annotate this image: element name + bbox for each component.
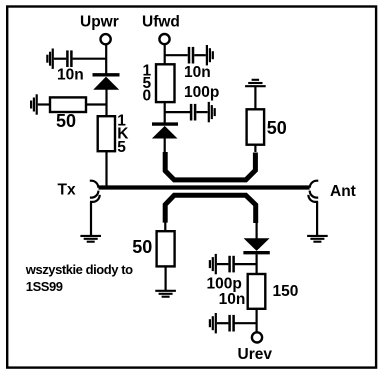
- capacitor C2 10n plates: [189, 47, 193, 64]
- ground right of C2: [207, 45, 213, 65]
- terminal Urev: [252, 332, 262, 342]
- upper coupled line: [165, 152, 255, 180]
- capacitor C5 10n plates: [230, 315, 234, 332]
- ground below R5: [155, 291, 176, 297]
- diode D2 cathode bar: [152, 122, 178, 125]
- svg-text:Ufwd: Ufwd: [142, 14, 180, 31]
- svg-text:100p: 100p: [184, 84, 219, 101]
- resistor R1 50: [50, 97, 86, 112]
- capacitor C1 10n wire: [73, 58, 107, 60]
- wire R6 to Urev: [256, 309, 258, 332]
- wire C1 to ground: [54, 58, 66, 60]
- wire R4 to coupled line: [254, 145, 256, 152]
- capacitor C4 100p wire: [234, 263, 257, 265]
- capacitor C2 10n wire: [165, 54, 188, 56]
- svg-text:5: 5: [117, 139, 126, 156]
- svg-text:1SS99: 1SS99: [26, 279, 63, 294]
- resistor R4 50: [247, 109, 265, 144]
- ground Tx: [80, 236, 101, 242]
- wire D2 to coupled line: [164, 138, 166, 154]
- wire R2 to main line: [105, 151, 107, 187]
- diode D1 triangle: [93, 77, 119, 90]
- svg-text:Tx: Tx: [58, 181, 76, 198]
- ground Ant: [307, 236, 328, 242]
- wire D1 to R2: [105, 90, 107, 117]
- wire R5 to ground: [165, 266, 167, 290]
- wire R1 to node: [86, 103, 107, 105]
- connector Ant arcs: [308, 181, 318, 202]
- lower coupled line: [165, 195, 256, 223]
- terminal Upwr: [101, 34, 111, 44]
- svg-text:150: 150: [273, 283, 299, 300]
- svg-text:50: 50: [56, 111, 76, 131]
- svg-text:Urev: Urev: [238, 346, 273, 363]
- svg-text:10n: 10n: [57, 67, 84, 84]
- resistor R5 50: [157, 231, 175, 266]
- svg-text:10n: 10n: [184, 64, 211, 81]
- resistor R2 1K5: [98, 116, 115, 151]
- diode D2 triangle: [152, 126, 178, 139]
- capacitor C5 10n wire: [234, 322, 257, 324]
- svg-text:50: 50: [267, 118, 287, 138]
- svg-text:50: 50: [132, 237, 152, 257]
- ground left of R1: [31, 94, 37, 114]
- svg-text:Ant: Ant: [330, 183, 356, 200]
- wire C5 to ground: [217, 322, 229, 324]
- terminal Ufwd: [159, 34, 169, 44]
- svg-text:Upwr: Upwr: [80, 14, 119, 31]
- resistor R6 150: [248, 274, 266, 309]
- resistor R3 150: [156, 64, 175, 102]
- wire C2 to ground: [194, 54, 206, 56]
- main transmission line Tx-Ant: [99, 185, 310, 189]
- wire R3 to D2: [164, 102, 166, 123]
- wire R1 to ground: [38, 103, 50, 105]
- svg-text:10n: 10n: [219, 291, 246, 308]
- ground left of C5: [210, 313, 216, 333]
- wire C4 to ground: [217, 263, 229, 265]
- wire C3 to ground: [196, 111, 207, 113]
- capacitor C1 10n plates: [67, 50, 71, 67]
- capacitor C3 100p wire: [165, 111, 190, 113]
- ground above R4 inverted: [245, 80, 266, 86]
- capacitor C4 100p plates: [230, 256, 234, 273]
- diode D3 triangle: [244, 238, 270, 251]
- diode D3 cathode bar: [243, 251, 269, 254]
- wire Ant shield to ground: [316, 202, 318, 235]
- diode D1 cathode bar: [93, 73, 120, 76]
- wire coupled line to R5: [164, 222, 166, 232]
- capacitor C3 100p plates: [191, 104, 195, 121]
- connector Tx arcs: [90, 181, 100, 202]
- ground left of C4: [210, 254, 216, 274]
- wire Ufwd to R3: [164, 45, 166, 66]
- svg-text:100p: 100p: [207, 276, 242, 293]
- ground left of C1: [47, 49, 52, 69]
- svg-text:wszystkie diody to: wszystkie diody to: [25, 262, 133, 277]
- wire Tx shield to ground: [90, 202, 92, 235]
- ground right of C3: [209, 102, 215, 122]
- wire D3 to R6: [256, 254, 258, 274]
- wire Upwr to C1 node: [105, 45, 107, 74]
- svg-text:0: 0: [143, 88, 152, 105]
- wire coupled line to D3: [256, 223, 258, 239]
- wire ground to R4: [254, 86, 256, 109]
